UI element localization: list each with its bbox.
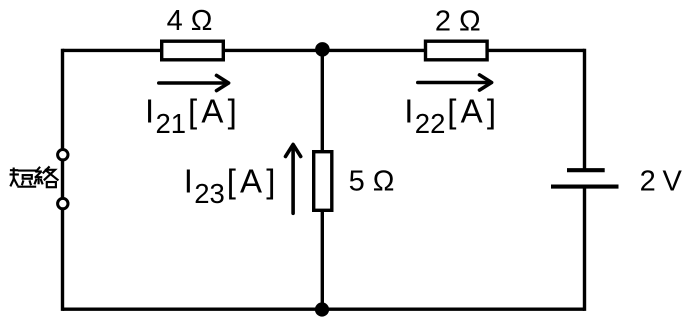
terminal circle lower (short-circuit point) [58, 198, 68, 208]
resistor 5Ω (middle branch, vertical) [314, 152, 332, 211]
wire top (node between short branch and battery branch) [63, 49, 585, 52]
label 2 V [640, 166, 683, 198]
wire right lower (from battery) [583, 187, 586, 311]
resistor 2Ω (top right branch) [426, 41, 488, 60]
svg-text:21: 21 [156, 108, 187, 139]
svg-text:[A]: [A] [227, 163, 280, 200]
label 2 Ω [435, 6, 481, 38]
svg-text:I: I [145, 93, 154, 130]
node junction bottom (dot) [315, 302, 329, 316]
label I21[A] [145, 93, 241, 139]
label 4 Ω [167, 5, 213, 37]
battery 2V: short plate (negative) [567, 168, 605, 172]
wire bottom [63, 308, 585, 311]
svg-text:I: I [184, 163, 193, 200]
svg-text:[A]: [A] [188, 93, 241, 130]
svg-text:5 Ω: 5 Ω [349, 166, 395, 198]
current arrow I23 (upward) [286, 144, 301, 213]
label I22[A] [404, 93, 500, 139]
svg-text:4 Ω: 4 Ω [167, 5, 213, 37]
node junction top (dot) [315, 42, 330, 57]
svg-text:2 V: 2 V [640, 166, 683, 198]
current arrow I21 [159, 75, 229, 90]
svg-text:I: I [404, 93, 413, 130]
wire middle (5 ohm branch) [321, 50, 324, 309]
wire left (short-circuit branch) [61, 49, 64, 311]
wire right upper (to battery) [583, 49, 586, 171]
resistor 4Ω (top left branch) [162, 41, 224, 60]
svg-text:2 Ω: 2 Ω [435, 6, 481, 38]
current arrow I22 [418, 75, 492, 90]
label 5 Ω [349, 166, 395, 198]
svg-text:[A]: [A] [447, 93, 500, 130]
battery 2V: long plate (positive) [551, 185, 619, 189]
label 短絡 (kanji drawn as paths) [11, 167, 58, 187]
svg-text:23: 23 [194, 178, 225, 209]
label I23[A] [184, 163, 280, 210]
terminal circle upper (short-circuit point) [58, 150, 68, 160]
svg-text:22: 22 [415, 108, 446, 139]
